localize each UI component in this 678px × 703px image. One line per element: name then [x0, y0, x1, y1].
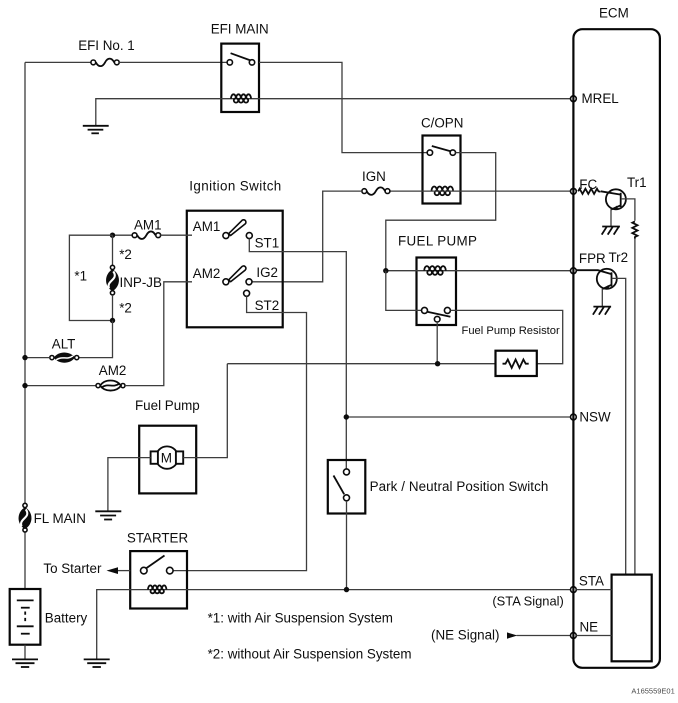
wire battery to ground: [24, 645, 26, 659]
wire rail to AM2 fuse: [25, 385, 96, 387]
wire STA pin to inner block: [576, 589, 611, 591]
FUEL PUMP relay switch: [422, 307, 451, 322]
svg-text:AM1: AM1: [193, 219, 221, 234]
wire ST2 out to starter switch: [173, 296, 306, 570]
svg-text:C/OPN: C/OPN: [421, 116, 463, 131]
wire park/neutral out to STA line: [346, 501, 348, 590]
fusible link AM2: [96, 380, 125, 390]
wire INP-JB branch lower: [112, 295, 114, 321]
ground (EFI MAIN coil): [83, 126, 109, 134]
svg-text:ST1: ST1: [255, 236, 280, 251]
fuse AM1: [132, 231, 160, 239]
STARTER switch contacts: [141, 556, 174, 574]
wire switch to To Starter arrow: [116, 570, 130, 572]
park/neutral position switch box: [328, 460, 366, 514]
node STA branch dot: [344, 587, 349, 592]
wire AM1 fuse into ignition switch: [160, 234, 192, 236]
svg-text:STA: STA: [579, 574, 604, 589]
wire NE pin to inner block: [576, 635, 611, 637]
wire starter coil to ground: [97, 590, 131, 659]
wire Tr2 collector down to inner block: [612, 278, 626, 574]
node NE pin: [571, 633, 577, 639]
node NSW pin: [571, 414, 577, 420]
svg-text:MREL: MREL: [582, 91, 619, 106]
relay EFI MAIN box: [221, 44, 259, 112]
chassis ground (Tr1 emitter): [602, 227, 620, 235]
wire AM1 junction to fuse: [113, 234, 133, 236]
wire fuse to EFI MAIN relay: [119, 61, 228, 63]
FUEL PUMP relay coil: [386, 266, 571, 275]
wire top feed to EFI No.1 fuse: [25, 61, 91, 63]
relay FUEL PUMP box: [417, 258, 457, 326]
svg-text:Battery: Battery: [45, 611, 88, 626]
ECM inner block: [612, 575, 652, 662]
wire IGN fuse to C/OPN coil to FC: [390, 190, 571, 192]
EFI MAIN coil: [221, 94, 259, 102]
ignition switch IG2 contact: [246, 265, 278, 285]
node FPR pin: [571, 268, 577, 274]
C/OPN switch contacts: [427, 146, 455, 155]
node fuel pump branch dot: [383, 268, 388, 273]
wire INP-JB branch upper: [112, 235, 114, 265]
resistor Fuel Pump Resistor: [496, 351, 537, 376]
wire IG2 to IGN fuse: [252, 191, 362, 282]
wire motor left to ground: [108, 458, 151, 511]
svg-text:FPR: FPR: [579, 251, 606, 266]
svg-text:ECM: ECM: [599, 6, 629, 21]
wire STA line: [187, 589, 571, 591]
C/OPN coil: [432, 187, 454, 196]
svg-text:*2: without Air Suspension Sys: *2: without Air Suspension System: [208, 647, 412, 662]
relay C/OPN box: [423, 136, 461, 204]
svg-text:AM1: AM1: [134, 218, 162, 233]
resistor internal vertical: [632, 221, 637, 238]
svg-text:*1: *1: [74, 268, 87, 283]
ground (fuel pump): [95, 511, 121, 519]
node AM1 junction dot: [110, 233, 115, 238]
wire switch common down: [436, 322, 438, 364]
svg-text:(STA Signal): (STA Signal): [492, 594, 563, 609]
svg-text:AM2: AM2: [99, 363, 127, 378]
wire AM2 fuse to ignition switch: [125, 282, 192, 386]
svg-text:EFI MAIN: EFI MAIN: [211, 22, 269, 37]
ground (starter coil): [84, 659, 110, 667]
svg-text:IG2: IG2: [256, 265, 278, 280]
arrow To Starter: [107, 567, 119, 574]
node AM2 rail dot: [22, 383, 27, 388]
wire C/OPN switch out to fuel pump relay branch: [386, 153, 496, 271]
node lower junction dot: [110, 318, 115, 323]
wire left rail bottom segment: [24, 532, 26, 589]
fuse IGN: [362, 187, 390, 195]
fuse EFI No. 1: [91, 59, 119, 67]
ignition switch ST2 contact: [244, 290, 280, 313]
ignition switch AM1 contact and mover: [193, 219, 246, 239]
ECM outline: [573, 29, 660, 668]
svg-text:*2: *2: [119, 301, 132, 316]
svg-text:EFI No. 1: EFI No. 1: [78, 38, 135, 53]
ignition switch ST1 contact: [246, 233, 279, 251]
node STA pin: [571, 587, 577, 593]
STARTER coil: [130, 585, 187, 593]
wire EFI MAIN coil to MREL: [259, 98, 571, 100]
wire *1 bypass loop: [69, 235, 112, 320]
svg-text:ALT: ALT: [52, 337, 76, 352]
svg-text:(NE Signal): (NE Signal): [431, 628, 499, 643]
svg-text:A165559E01: A165559E01: [631, 687, 674, 696]
wire resistor down to inner block: [634, 239, 636, 575]
svg-text:*1: with Air Suspension System: *1: with Air Suspension System: [208, 611, 393, 626]
wire Tr1 collector: [621, 199, 635, 221]
wire switch out right to resistor bypass: [451, 310, 563, 363]
svg-text:*2: *2: [119, 247, 132, 262]
relay STARTER box: [130, 551, 187, 608]
svg-text:FUEL PUMP: FUEL PUMP: [398, 234, 477, 249]
arrow NE signal: [507, 632, 517, 638]
wire EFI MAIN switch out to C/OPN: [259, 62, 427, 152]
wire motor right up to resistor line: [183, 364, 227, 458]
wire left rail top segment: [24, 62, 26, 503]
fusible link INP-JB: [106, 265, 119, 295]
svg-text:Park / Neutral Position Switch: Park / Neutral Position Switch: [370, 479, 549, 494]
wire resistor line: [227, 363, 495, 365]
EFI MAIN switch contacts: [227, 53, 255, 65]
wire relay feed to switch: [386, 271, 422, 311]
battery: [10, 589, 41, 645]
park/neutral switch contacts: [334, 469, 350, 501]
svg-text:M: M: [161, 450, 172, 465]
svg-text:NSW: NSW: [579, 410, 611, 425]
wire NSW line: [346, 416, 570, 418]
svg-text:Tr1: Tr1: [627, 175, 647, 190]
node MREL pin: [571, 96, 577, 102]
wire ALT to rail: [25, 357, 50, 359]
svg-text:NE: NE: [580, 620, 599, 635]
wire ST1 out to park/neutral branch: [249, 239, 346, 469]
transistor Tr2: [576, 269, 617, 307]
node FC pin: [571, 188, 577, 194]
svg-text:Tr2: Tr2: [609, 250, 629, 265]
svg-text:To Starter: To Starter: [43, 561, 102, 576]
fusible link ALT: [50, 352, 79, 362]
node resistor line dot: [435, 361, 440, 366]
svg-text:IGN: IGN: [362, 169, 386, 184]
ignition switch box: [187, 211, 283, 328]
motor M: [151, 446, 184, 468]
svg-text:FL MAIN: FL MAIN: [34, 511, 86, 526]
svg-text:Fuel Pump: Fuel Pump: [135, 398, 200, 413]
fusible link FL MAIN: [19, 503, 32, 532]
node NSW branch dot: [344, 414, 349, 419]
wire ALT branch vertical: [79, 321, 113, 358]
svg-text:INP-JB: INP-JB: [120, 275, 162, 290]
node ALT rail dot: [22, 355, 27, 360]
svg-text:FC: FC: [579, 177, 597, 192]
svg-text:Fuel Pump Resistor: Fuel Pump Resistor: [462, 325, 561, 337]
ground (battery): [12, 659, 38, 667]
transistor Tr1: [601, 189, 626, 226]
svg-text:ST2: ST2: [255, 298, 280, 313]
wire NE arrow to pin: [517, 635, 571, 637]
resistor FC internal: [578, 189, 600, 194]
svg-text:Ignition Switch: Ignition Switch: [189, 179, 281, 194]
wire EFI MAIN coil to ground stub: [96, 99, 222, 126]
fuel pump box: [139, 426, 196, 494]
chassis ground (Tr2 emitter): [593, 307, 611, 315]
svg-text:AM2: AM2: [193, 266, 221, 281]
ignition switch AM2 contact and mover: [193, 266, 246, 285]
svg-text:STARTER: STARTER: [127, 531, 189, 546]
